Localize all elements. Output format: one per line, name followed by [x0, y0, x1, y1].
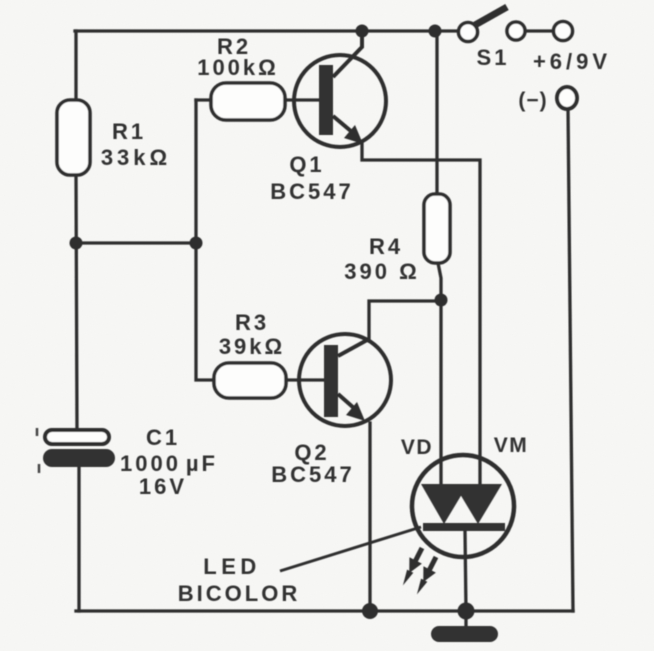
label LED pointer line [280, 527, 421, 571]
wire left vertical upper [74, 31, 77, 100]
wire R2 left stub [196, 98, 212, 101]
node LED cathode rail [458, 603, 475, 620]
wire switch link [526, 29, 553, 32]
svg-text:VM: VM [494, 434, 529, 457]
transistor Q2 [299, 334, 391, 426]
capacitor C1 [37, 428, 115, 473]
switch S1 [459, 7, 573, 42]
wire negative terminal down [568, 108, 573, 611]
node base bus right [190, 237, 203, 250]
svg-text:Q1: Q1 [289, 152, 324, 177]
svg-text:33kΩ: 33kΩ [101, 145, 171, 170]
svg-text:1000 µF: 1000 µF [120, 451, 218, 476]
transistor Q1 [294, 31, 386, 147]
svg-text:R1: R1 [112, 119, 146, 144]
ground blob [431, 626, 498, 642]
svg-text:BC547: BC547 [271, 462, 354, 487]
svg-text:C1: C1 [146, 425, 180, 450]
svg-text:BC547: BC547 [270, 179, 353, 204]
svg-text:R4: R4 [369, 234, 403, 259]
node Q2 emitter rail [362, 603, 378, 619]
svg-text:+6/9V: +6/9V [533, 49, 611, 74]
svg-text:16V: 16V [139, 474, 187, 499]
negative terminal [557, 87, 577, 109]
wire base bus horizontal [76, 241, 196, 244]
wire top rail [75, 29, 458, 32]
resistor R2 [211, 83, 285, 120]
LED bicolor D1 [412, 455, 514, 557]
wire Q1 emitter to LED VM [362, 144, 480, 487]
resistor R4 [424, 194, 450, 263]
wire base bus vertical [196, 100, 214, 380]
LED light arrows [397, 545, 443, 598]
svg-text:S1: S1 [477, 45, 510, 70]
wire left vertical middle [76, 175, 77, 430]
resistor R3 [214, 363, 286, 398]
svg-text:R3: R3 [235, 310, 269, 335]
node R4 bottom [435, 294, 448, 307]
wire R3 to Q2 base [286, 378, 326, 381]
wire ground stub [464, 611, 467, 629]
wire LED cathode down [465, 531, 466, 611]
svg-text:VD: VD [401, 436, 433, 459]
wire R4 to LED VD [438, 263, 441, 487]
wire bottom rail [76, 609, 573, 612]
svg-text:(−): (−) [518, 89, 547, 112]
node top rail R4 feed [429, 25, 442, 38]
node base bus left [70, 237, 83, 250]
resistor R1 [57, 100, 90, 175]
svg-text:39kΩ: 39kΩ [219, 334, 285, 359]
wire top rail to R4 [435, 31, 438, 194]
wire Q2 emitter down [368, 423, 371, 611]
wire Q2 collector to node [369, 301, 441, 339]
svg-text:BICOLOR: BICOLOR [178, 581, 300, 606]
wire R2 to Q1 base [285, 98, 321, 101]
svg-text:LED: LED [203, 554, 261, 579]
node top rail Q1 collector [356, 25, 369, 38]
svg-text:390 Ω: 390 Ω [344, 259, 419, 284]
wire left vertical lower [77, 467, 80, 611]
svg-text:100kΩ: 100kΩ [197, 55, 279, 80]
